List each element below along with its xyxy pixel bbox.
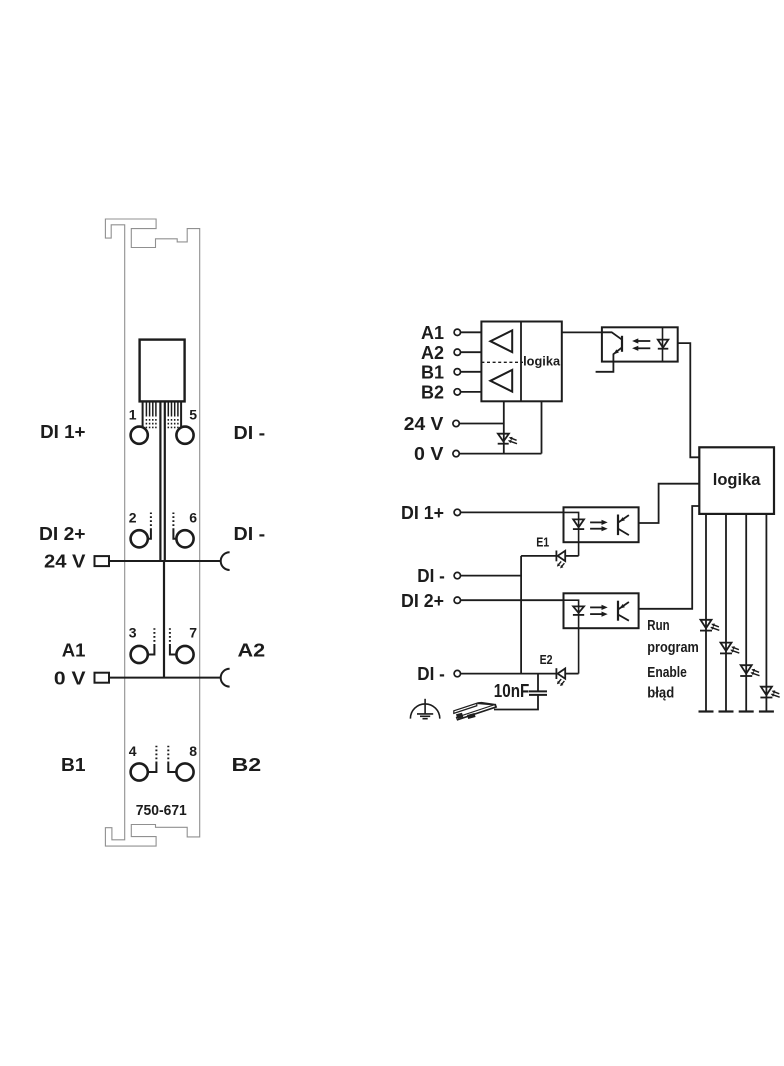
capacitor C1 lead bottom xyxy=(494,695,538,710)
U4 LED xyxy=(564,600,585,673)
svg-text:7: 7 xyxy=(189,625,197,641)
terminal 3 contact xyxy=(148,628,155,654)
status LED line 4 end bar xyxy=(759,710,774,712)
svg-text:Enable: Enable xyxy=(647,664,687,681)
status LED line 1 xyxy=(705,514,707,712)
svg-text:E1: E1 xyxy=(536,534,549,549)
svg-text:DI 1+: DI 1+ xyxy=(40,422,85,442)
svg-text:B2: B2 xyxy=(421,383,444,403)
svg-text:DI -: DI - xyxy=(417,664,445,684)
terminal 1 xyxy=(131,427,148,444)
terminal 2 contact xyxy=(148,513,151,539)
wire B1 xyxy=(461,371,482,373)
terminal 6 xyxy=(176,530,193,547)
svg-text:logika: logika xyxy=(523,354,561,368)
24V rail wire xyxy=(109,560,221,562)
wire U3 to logika xyxy=(639,484,700,523)
svg-text:4: 4 xyxy=(129,743,137,759)
DI - input terminal (2) xyxy=(454,670,460,676)
LED D1 xyxy=(498,434,509,444)
U4 phototransistor xyxy=(618,601,629,621)
U1 comparator triangle upper xyxy=(490,330,512,352)
status LED line 1 end bar xyxy=(699,710,714,712)
svg-text:błąd: błąd xyxy=(647,684,674,701)
bus wire pair xyxy=(160,402,164,561)
capacitor C1 lead top xyxy=(537,674,539,692)
0V wire xyxy=(459,453,541,455)
U3 LED xyxy=(564,512,585,556)
0 V input terminal xyxy=(453,450,459,456)
svg-text:B2: B2 xyxy=(232,755,262,775)
terminal 7 contact xyxy=(170,628,177,654)
U1 dashed separator xyxy=(481,361,523,363)
DI - input terminal (1) xyxy=(454,572,460,578)
24 V input terminal xyxy=(453,420,459,426)
svg-text:E2: E2 xyxy=(540,652,553,667)
svg-text:Run: Run xyxy=(647,617,669,634)
input A2 terminal xyxy=(454,349,460,355)
U3 light arrows xyxy=(590,520,608,532)
input driver box U1 xyxy=(481,322,561,402)
terminal 8 xyxy=(176,763,193,780)
svg-text:A1: A1 xyxy=(421,323,444,343)
U1 comparator triangle lower xyxy=(490,370,512,392)
DI 1+ input terminal xyxy=(454,509,460,515)
LED E2 xyxy=(556,668,578,679)
status LED line 3 end bar xyxy=(739,710,754,712)
junction drop wire xyxy=(520,556,522,674)
terminal 7 xyxy=(176,646,193,663)
status LED L3 xyxy=(740,665,752,676)
U2 LED xyxy=(658,327,669,361)
svg-text:10nF: 10nF xyxy=(494,681,530,701)
svg-text:2: 2 xyxy=(129,510,137,526)
wire U1 to U2 xyxy=(562,331,602,333)
24V field terminal square xyxy=(95,556,110,566)
svg-text:24 V: 24 V xyxy=(404,414,444,434)
U2 phototransistor xyxy=(596,332,622,372)
wire B2 xyxy=(461,391,482,393)
svg-text:A2: A2 xyxy=(421,343,444,363)
connector pin dots xyxy=(146,419,178,430)
optocoupler U4 xyxy=(564,593,639,628)
24V rail socket arc xyxy=(221,552,230,570)
svg-text:5: 5 xyxy=(189,407,197,423)
connector K1 xyxy=(140,340,185,402)
0V rail socket arc xyxy=(221,669,230,687)
svg-text:DI -: DI - xyxy=(234,423,266,443)
U2 light arrows xyxy=(632,338,650,351)
terminal 4 contact xyxy=(148,746,157,772)
main logika box xyxy=(699,447,774,514)
wire A1 xyxy=(461,331,482,333)
capacitor C1 xyxy=(529,691,547,695)
input B1 terminal xyxy=(454,369,460,375)
bus wire single xyxy=(163,561,165,678)
wire U4 to logika xyxy=(639,506,700,609)
module outline xyxy=(105,219,199,846)
input B2 terminal xyxy=(454,389,460,395)
pin wire to terminal 5 xyxy=(180,402,182,428)
svg-text:1: 1 xyxy=(129,407,137,423)
status LED line 4 xyxy=(765,514,767,712)
svg-text:logika: logika xyxy=(713,471,762,489)
input A1 terminal xyxy=(454,329,460,335)
status LED L1 xyxy=(700,620,712,631)
status LED line 3 xyxy=(745,514,747,712)
U4 light arrows xyxy=(590,605,608,617)
terminal 2 xyxy=(131,530,148,547)
wire A2 xyxy=(461,351,482,353)
U1 return drop wire xyxy=(541,401,543,453)
wire U2 to logika xyxy=(678,343,700,457)
optocoupler U3 xyxy=(564,507,639,542)
status LED L4 xyxy=(760,687,772,698)
U3 phototransistor xyxy=(618,515,629,536)
0V rail wire xyxy=(109,677,221,679)
U1 supply drop wire xyxy=(503,401,505,453)
svg-text:A2: A2 xyxy=(238,641,266,661)
DI- wire (1) xyxy=(461,575,522,577)
24V wire xyxy=(459,423,504,425)
svg-text:DI 2+: DI 2+ xyxy=(401,591,444,611)
DI2+ wire xyxy=(461,599,564,601)
status LED L2 xyxy=(720,643,732,654)
terminal 3 xyxy=(131,646,148,663)
functional earth symbol xyxy=(410,699,439,719)
svg-text:0 V: 0 V xyxy=(414,444,443,464)
svg-text:DI -: DI - xyxy=(417,566,445,586)
U1 divider xyxy=(520,322,522,402)
svg-text:DI 2+: DI 2+ xyxy=(39,524,86,544)
svg-text:0 V: 0 V xyxy=(54,668,86,688)
terminal 8 contact xyxy=(168,746,176,772)
optocoupler U2 xyxy=(602,327,678,361)
svg-text:A1: A1 xyxy=(62,641,86,661)
LED E1 xyxy=(521,551,579,562)
DI- wire (2) xyxy=(461,673,557,675)
terminal 6 contact xyxy=(173,513,176,539)
svg-text:DI -: DI - xyxy=(234,524,266,544)
svg-text:B1: B1 xyxy=(61,755,86,775)
status LED line 2 end bar xyxy=(719,710,734,712)
terminal 5 xyxy=(176,427,193,444)
svg-text:3: 3 xyxy=(129,625,137,641)
svg-text:program: program xyxy=(647,639,699,656)
DI 2+ input terminal xyxy=(454,597,460,603)
connector pins xyxy=(146,402,178,417)
svg-text:750-671: 750-671 xyxy=(136,802,187,819)
svg-text:B1: B1 xyxy=(421,362,444,382)
terminal 4 xyxy=(131,763,148,780)
DIN rail symbol xyxy=(453,702,497,721)
svg-text:8: 8 xyxy=(189,743,197,759)
svg-text:24 V: 24 V xyxy=(44,552,86,572)
pin wire to terminal 1 xyxy=(142,402,144,428)
svg-text:DI 1+: DI 1+ xyxy=(401,503,444,523)
DI1+ wire xyxy=(461,511,564,513)
svg-text:6: 6 xyxy=(189,510,197,526)
0V field terminal square xyxy=(95,673,110,683)
status LED line 2 xyxy=(725,514,727,712)
